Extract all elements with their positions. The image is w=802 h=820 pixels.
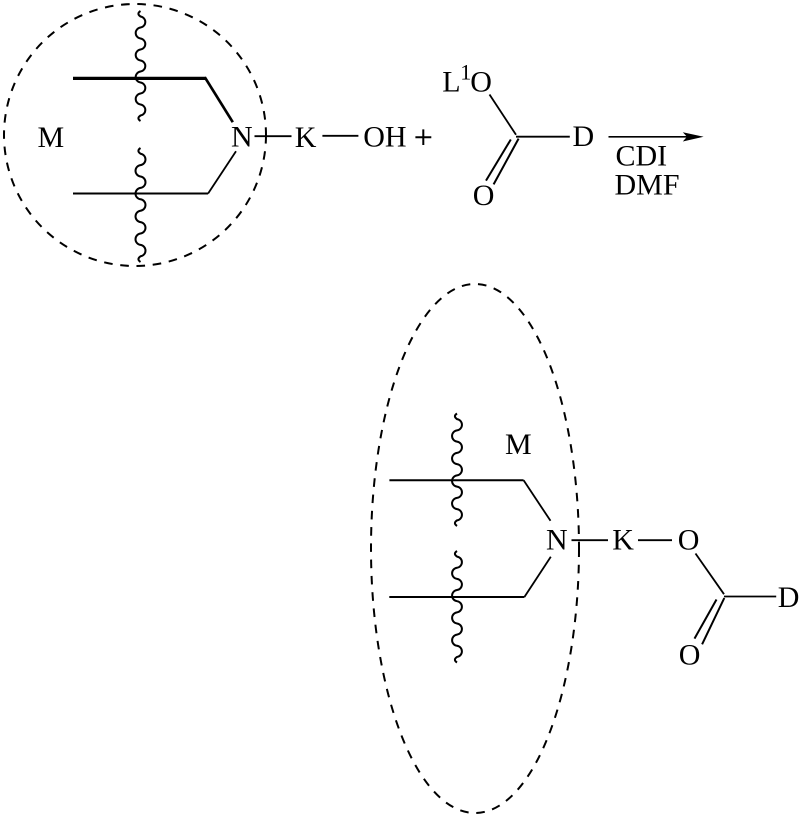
double bond C=O line 2 (reagent) bbox=[494, 139, 519, 185]
svg-text:L: L bbox=[442, 66, 460, 99]
bond O-C diagonal (reagent) bbox=[490, 95, 517, 135]
lower diagonal bond to N (reactant) bbox=[208, 151, 236, 193]
svg-text:M: M bbox=[505, 428, 532, 461]
squiggle bond lower (reactant) bbox=[136, 148, 146, 262]
svg-text:M: M bbox=[38, 121, 65, 154]
bond N-K (reactant) bbox=[255, 135, 292, 137]
svg-text:D: D bbox=[573, 120, 595, 153]
svg-text:O: O bbox=[679, 639, 701, 672]
squiggle bond upper (product) bbox=[452, 414, 462, 526]
bond C-D horizontal (product) bbox=[724, 596, 776, 598]
svg-text:O: O bbox=[470, 66, 492, 99]
bond K-OH (reactant) bbox=[322, 135, 358, 137]
dotted circle (reactant polymer boundary M) bbox=[4, 4, 266, 266]
svg-text:O: O bbox=[473, 179, 495, 212]
svg-text:N: N bbox=[231, 120, 253, 153]
bond N-K (product) bbox=[572, 539, 609, 541]
upper bond line (product) bbox=[389, 479, 523, 481]
svg-text:K: K bbox=[295, 121, 317, 154]
double bond C=O line 2 (product) bbox=[702, 598, 724, 644]
bond O-C diagonal (product) bbox=[696, 554, 725, 595]
plus sign bbox=[415, 129, 431, 145]
lower bond line (product) bbox=[389, 596, 524, 598]
svg-text:O: O bbox=[678, 524, 700, 557]
svg-text:N: N bbox=[546, 524, 568, 557]
thick upper bond line (reactant) bbox=[73, 77, 206, 80]
squiggle bond lower (product) bbox=[452, 551, 462, 663]
svg-text:DMF: DMF bbox=[615, 169, 680, 202]
dotted ellipse (product polymer boundary M) bbox=[371, 284, 579, 813]
squiggle bond upper (reactant) bbox=[136, 11, 146, 121]
svg-text:CDI: CDI bbox=[616, 140, 668, 173]
bond C-D horizontal (reagent) bbox=[516, 136, 570, 138]
bond K-O (product) bbox=[638, 539, 672, 541]
svg-text:D: D bbox=[778, 581, 800, 614]
upper diagonal bond to N (reactant) bbox=[205, 77, 233, 122]
upper diagonal bond to N (product) bbox=[524, 480, 551, 521]
svg-text:K: K bbox=[612, 524, 634, 557]
lower bond line (reactant) bbox=[73, 193, 208, 195]
double bond C=O line 1 (reagent) bbox=[486, 140, 511, 181]
lower diagonal bond to N (product) bbox=[524, 557, 550, 597]
double bond C=O line 1 (product) bbox=[695, 600, 717, 639]
reaction arrow bbox=[609, 136, 700, 138]
svg-text:OH: OH bbox=[363, 120, 406, 153]
